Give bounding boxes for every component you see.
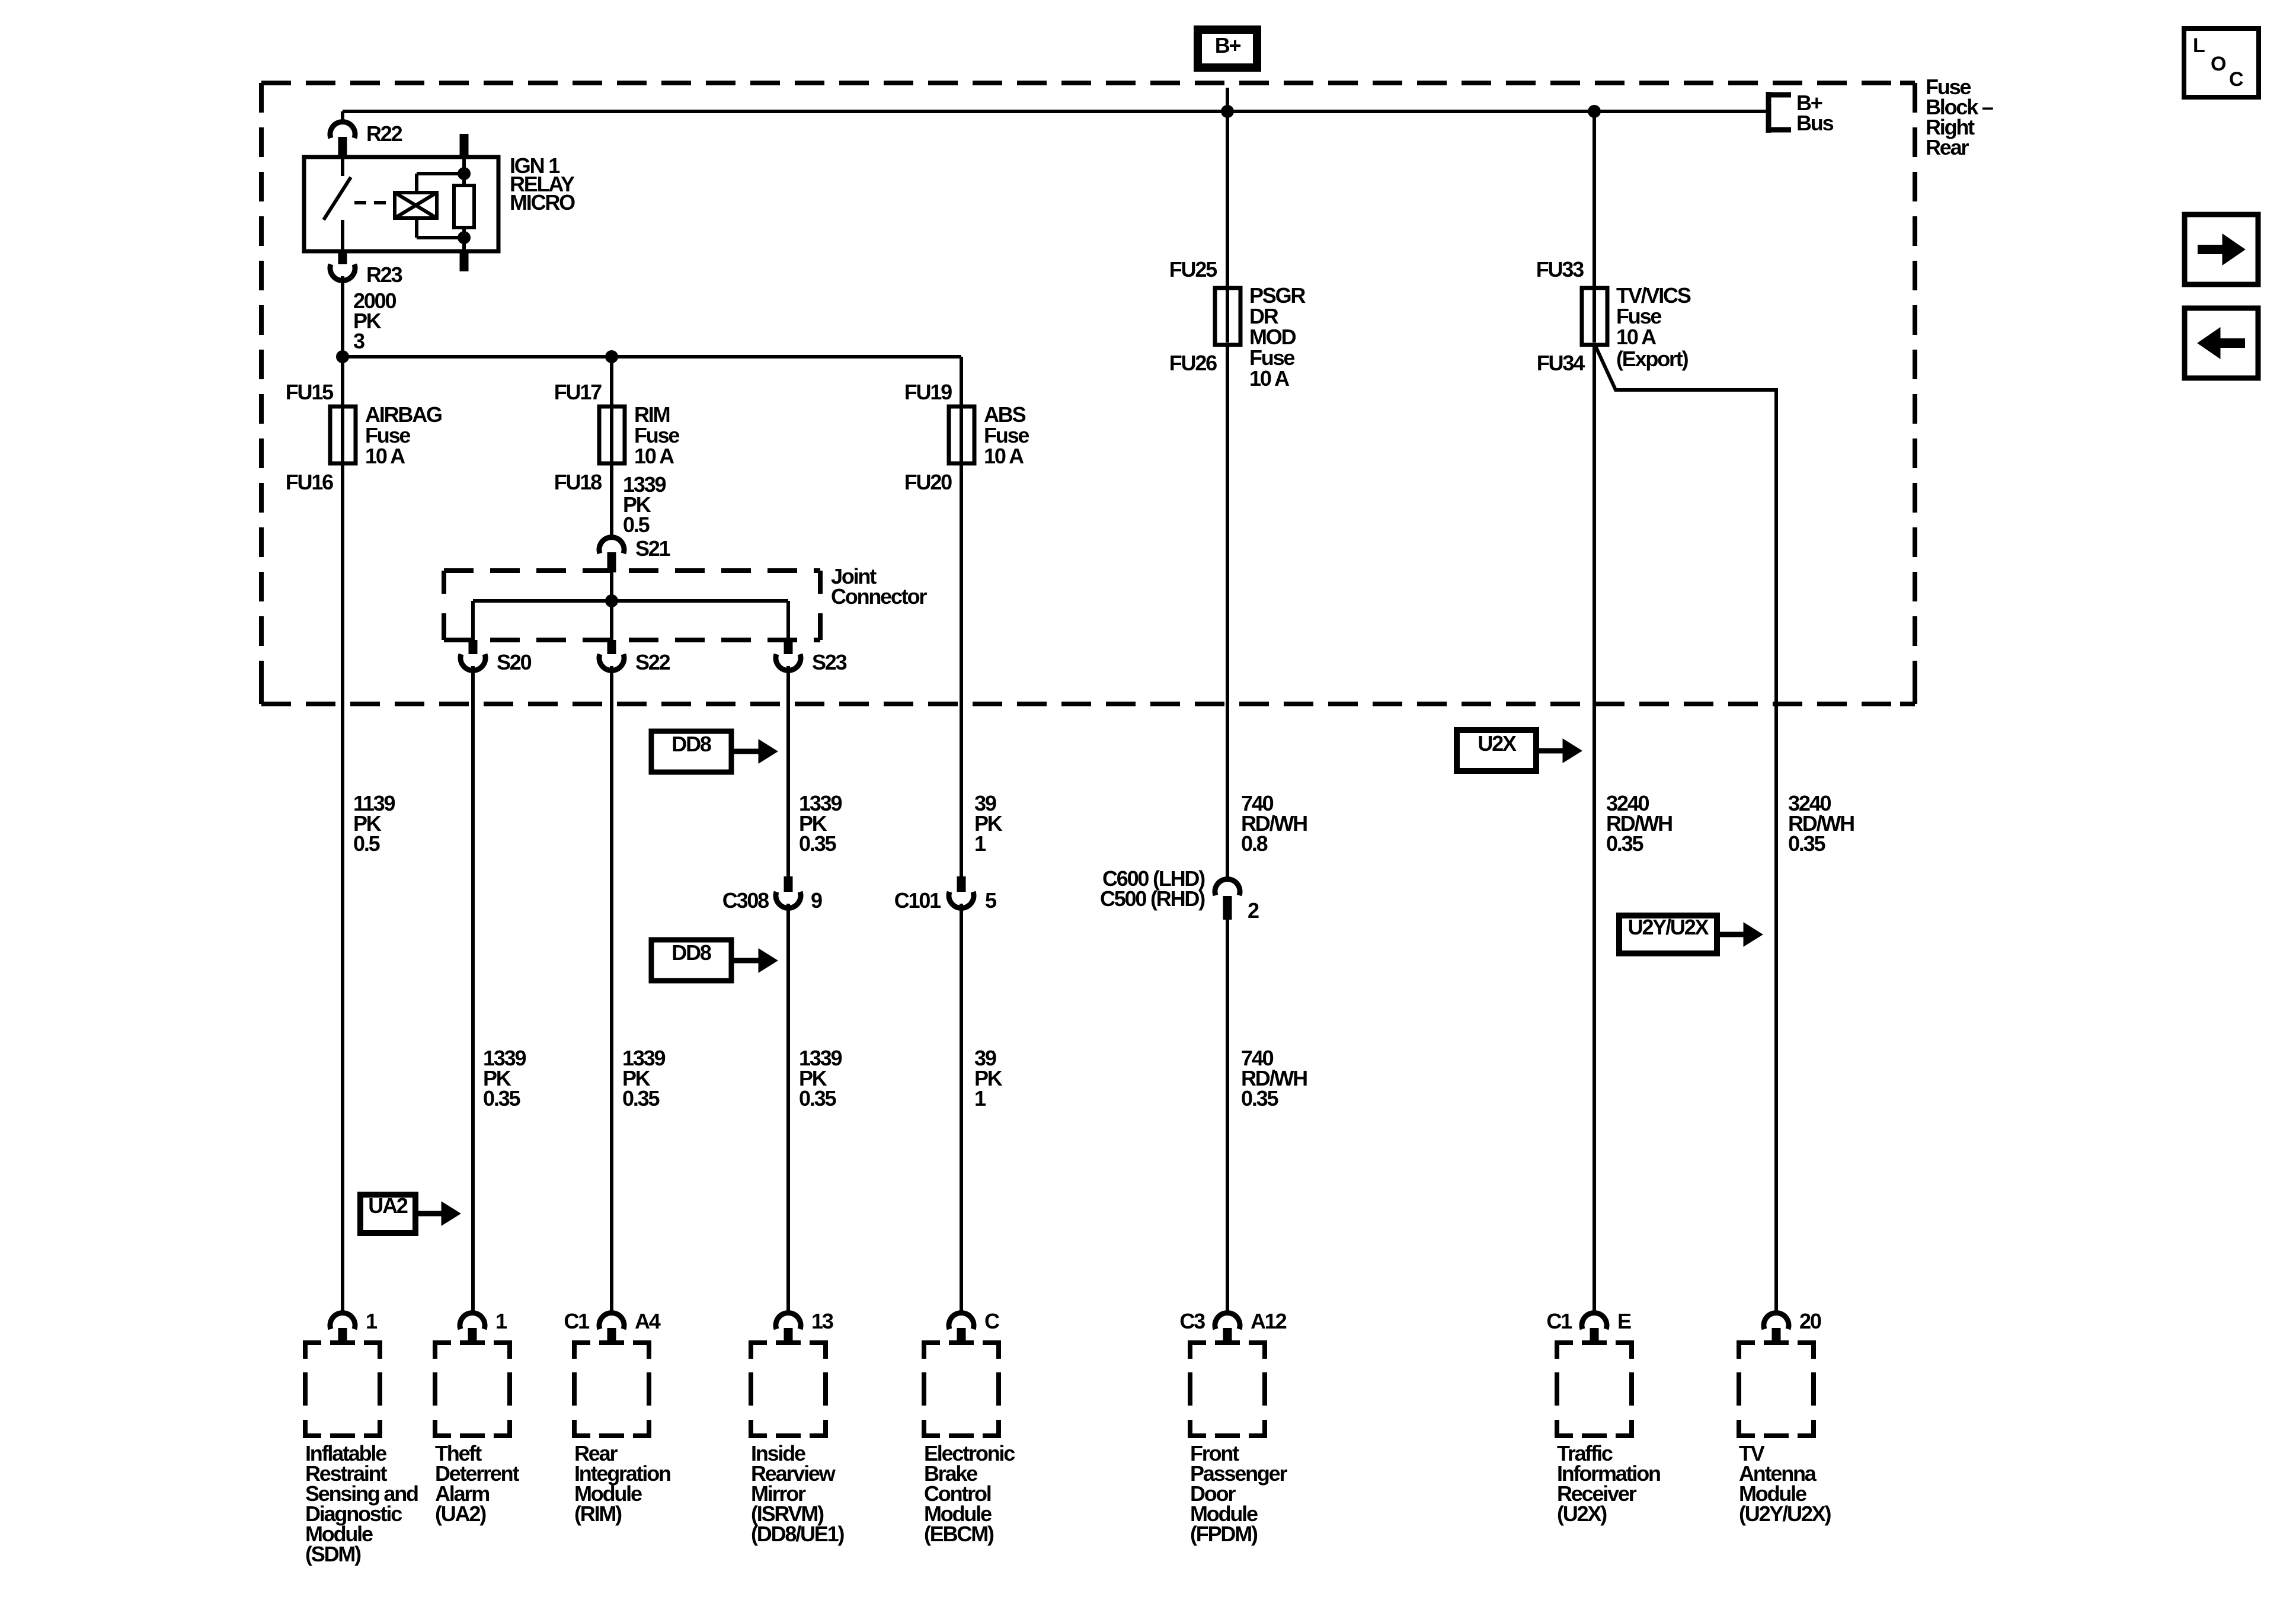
svg-text:20: 20 — [1799, 1309, 1821, 1333]
wire bus to FU33 — [1593, 111, 1596, 290]
label PSGR DR MOD Fuse 10 A — [1249, 283, 1306, 391]
fuse FU25/FU26 PSGR DR MOD — [1215, 288, 1240, 345]
svg-text:C500 (RHD): C500 (RHD) — [1100, 886, 1205, 911]
label FU17 — [554, 380, 602, 404]
fuse block - right rear dashed border (bottom) — [261, 702, 1915, 706]
wire FU34 branch to TV antenna — [1595, 346, 1776, 1312]
svg-text:C: C — [2229, 68, 2243, 91]
label R22 — [366, 121, 402, 146]
module box rear integration module (RIM) — [574, 1343, 649, 1436]
wire FU20 to C101 — [960, 463, 963, 876]
connector pin 20 at TV antenna module (U2Y/U2X) — [1764, 1313, 1789, 1345]
svg-text:13: 13 — [811, 1309, 833, 1333]
node joint connector — [605, 594, 618, 607]
wire label 1339 PK 0.35 (ISRVM lower) — [799, 1046, 842, 1110]
svg-text:FU25: FU25 — [1169, 257, 1217, 281]
relay switch — [324, 157, 351, 251]
wire joint connector bus — [473, 601, 788, 640]
fuse FU19/FU20 ABS — [949, 406, 974, 463]
svg-text:S20: S20 — [497, 650, 532, 674]
svg-text:(U2X): (U2X) — [1557, 1502, 1607, 1526]
joint connector dashed box — [444, 571, 820, 640]
svg-text:C1: C1 — [1546, 1309, 1572, 1333]
svg-text:Bus: Bus — [1796, 111, 1834, 135]
label pin 2 — [1248, 898, 1259, 923]
label C600 (LHD) C500 (RHD) — [1100, 866, 1205, 911]
wire coil top to resistor node — [417, 174, 464, 193]
label FU18 — [554, 470, 602, 494]
svg-text:0.35: 0.35 — [1241, 1086, 1278, 1110]
label Joint Connector — [831, 564, 927, 609]
svg-text:3: 3 — [353, 329, 364, 353]
svg-text:5: 5 — [985, 888, 997, 913]
svg-text:C1: C1 — [564, 1309, 590, 1333]
wire label 39 PK 1 (upper) — [974, 791, 1003, 856]
node relay top — [458, 167, 471, 180]
svg-text:O: O — [2211, 53, 2226, 75]
svg-text:10 A: 10 A — [365, 444, 405, 468]
splice S21 — [599, 537, 624, 572]
svg-text:E: E — [1617, 1309, 1631, 1333]
svg-text:Connector: Connector — [831, 584, 927, 609]
DD8 callout box 1 — [651, 731, 731, 772]
wire label 3240 RD/WH 0.35 (U2Y/U2X) — [1788, 791, 1854, 856]
label traffic information receiver (U2X) — [1557, 1441, 1660, 1526]
wire B+ to bus — [1226, 88, 1229, 111]
node bus junction at FU33 column — [1588, 105, 1601, 118]
wire C308 to ISRVM — [786, 904, 790, 1312]
svg-text:FU20: FU20 — [904, 470, 952, 494]
svg-text:S23: S23 — [812, 650, 847, 674]
label (Export) — [1616, 347, 1689, 371]
svg-text:(DD8/UE1): (DD8/UE1) — [751, 1522, 844, 1546]
svg-text:0.35: 0.35 — [622, 1086, 660, 1110]
splice S23 — [776, 640, 801, 670]
svg-text:U2X: U2X — [1478, 731, 1517, 756]
relay pin 86 stub — [460, 134, 469, 157]
node distribution at FU15 — [336, 350, 349, 363]
label pin 9 — [811, 888, 822, 913]
connector C101 pin 5 — [949, 876, 974, 908]
svg-text:FU26: FU26 — [1169, 351, 1217, 375]
svg-text:MICRO: MICRO — [510, 190, 575, 215]
label pin C — [984, 1309, 1000, 1333]
relay coil box — [395, 193, 437, 218]
fuse FU15/FU16 AIRBAG — [330, 406, 356, 463]
connector pin 13 at inside rearview mirror (ISRVM) — [776, 1313, 801, 1345]
wire label 740 RD/WH 0.8 — [1241, 791, 1307, 856]
wire S21 into joint connector — [610, 572, 613, 601]
label FU16 — [286, 470, 333, 494]
svg-text:0.35: 0.35 — [1788, 831, 1825, 856]
fuse block border corner dashes — [261, 83, 1915, 704]
svg-text:0.35: 0.35 — [799, 1086, 836, 1110]
svg-text:FU15: FU15 — [286, 380, 334, 404]
svg-text:B+: B+ — [1215, 33, 1241, 57]
svg-text:0.5: 0.5 — [353, 831, 380, 856]
wire coil bottom to resistor node — [417, 218, 464, 238]
DD8 callout arrow 2 — [731, 949, 778, 972]
U2Y/U2X callout arrow — [1717, 923, 1763, 946]
wire to FU15 — [341, 357, 344, 409]
label FU26 — [1169, 351, 1217, 375]
node bus junction at FPDM column — [1221, 105, 1234, 118]
B+ Bus bracket — [1766, 92, 1791, 133]
right arrow box — [2185, 215, 2258, 284]
svg-text:A4: A4 — [635, 1309, 661, 1333]
module box inflatable restraint sensing and diagnostic module (SDM) — [305, 1343, 380, 1436]
svg-text:(FPDM): (FPDM) — [1190, 1522, 1258, 1546]
svg-text:FU16: FU16 — [286, 470, 333, 494]
connector pin 1 at theft deterrent alarm (UA2) — [460, 1313, 485, 1345]
connector C600/C500 pin 2 — [1215, 879, 1240, 920]
wire bus to FU25 — [1226, 111, 1229, 290]
label FU25 — [1169, 257, 1217, 281]
svg-text:1: 1 — [974, 1086, 986, 1110]
label electronic brake control module (EBCM) — [924, 1441, 1015, 1546]
svg-text:L: L — [2193, 34, 2205, 57]
svg-text:FU34: FU34 — [1537, 351, 1585, 375]
wire distribution line — [343, 355, 961, 359]
svg-text:0.5: 0.5 — [623, 513, 650, 537]
svg-text:C3: C3 — [1179, 1309, 1205, 1333]
svg-text:FU17: FU17 — [554, 380, 602, 404]
label C101 — [894, 888, 941, 913]
wire label 1339 PK 0.35 (RIM) — [622, 1046, 665, 1110]
wire bus to R22 — [341, 111, 344, 122]
connector pin A4 at rear integration module (RIM) — [599, 1313, 624, 1345]
label rear integration module (RIM) — [574, 1441, 670, 1526]
wire label 1139 PK 0.5 — [353, 791, 395, 856]
svg-text:9: 9 — [811, 888, 822, 913]
label FU15 — [286, 380, 334, 404]
wire S22 to RIM — [610, 666, 613, 1312]
wire label 740 RD/WH 0.35 — [1241, 1046, 1307, 1110]
connector R23 — [330, 251, 355, 280]
svg-text:10 A: 10 A — [1616, 325, 1657, 349]
label connector C3 — [1179, 1309, 1205, 1333]
relay pin 85 stub — [460, 251, 469, 271]
label pin E — [1617, 1309, 1631, 1333]
svg-text:1: 1 — [495, 1309, 507, 1333]
label connector C1 — [564, 1309, 590, 1333]
wire B+ bus horizontal — [343, 110, 1766, 113]
svg-text:(SDM): (SDM) — [305, 1542, 361, 1566]
label B+ Bus — [1796, 91, 1834, 135]
svg-text:U2Y/U2X: U2Y/U2X — [1628, 915, 1709, 939]
label connector C1 — [1546, 1309, 1572, 1333]
wire label 39 PK 1 (lower) — [974, 1046, 1003, 1110]
wire label 1339 PK 0.5 — [623, 472, 666, 537]
svg-text:DD8: DD8 — [671, 940, 711, 965]
label front passenger door module (FPDM) — [1190, 1441, 1287, 1546]
svg-text:0.35: 0.35 — [799, 831, 836, 856]
svg-text:R22: R22 — [366, 121, 402, 146]
svg-text:R23: R23 — [366, 263, 402, 287]
label S21 — [635, 536, 671, 561]
svg-text:UA2: UA2 — [368, 1193, 408, 1218]
svg-text:1: 1 — [974, 831, 986, 856]
label pin 20 — [1799, 1309, 1821, 1333]
label pin 13 — [811, 1309, 833, 1333]
connector pin A12 at front passenger door module (FPDM) — [1215, 1313, 1240, 1345]
fuse FU17/FU18 RIM — [599, 406, 625, 463]
wire FU34 to traffic information receiver — [1593, 345, 1596, 1312]
wire FU26 to C600 — [1226, 345, 1229, 879]
label pin 1 — [495, 1309, 507, 1333]
B+ power symbol box — [1198, 30, 1257, 68]
label ABS Fuse 10 A — [984, 402, 1029, 468]
svg-text:FU18: FU18 — [554, 470, 602, 494]
module box inside rearview mirror (ISRVM) — [751, 1343, 826, 1436]
svg-text:(U2Y/U2X): (U2Y/U2X) — [1739, 1502, 1831, 1526]
svg-text:C101: C101 — [894, 888, 941, 913]
wire label 1339 PK 0.35 (theft) — [483, 1046, 526, 1110]
svg-text:10 A: 10 A — [1249, 366, 1290, 391]
svg-text:0.35: 0.35 — [1606, 831, 1643, 856]
DD8 callout box 2 — [651, 940, 731, 981]
wire FU16 to SDM — [341, 463, 344, 1312]
module box front passenger door module (FPDM) — [1190, 1343, 1265, 1436]
svg-text:DD8: DD8 — [671, 732, 711, 756]
node distribution at FU17 — [605, 350, 618, 363]
wire label 3240 RD/WH 0.35 (U2X) — [1606, 791, 1672, 856]
left arrow box — [2185, 308, 2258, 378]
connector pin C at electronic brake control module (EBCM) — [949, 1313, 974, 1345]
label FU20 — [904, 470, 952, 494]
splice S22 — [599, 640, 624, 670]
svg-text:FU33: FU33 — [1536, 257, 1584, 281]
label C308 — [722, 888, 769, 913]
svg-text:FU19: FU19 — [904, 380, 952, 404]
wire C600 to FPDM — [1226, 920, 1229, 1312]
module box theft deterrent alarm (UA2) — [435, 1343, 510, 1436]
svg-text:10 A: 10 A — [634, 444, 674, 468]
label pin A12 — [1251, 1309, 1287, 1333]
label S22 — [635, 650, 670, 674]
svg-text:S21: S21 — [635, 536, 671, 561]
wire to FU17 — [610, 357, 613, 409]
label FU19 — [904, 380, 952, 404]
relay IGN 1 box — [304, 157, 498, 251]
label FU34 — [1537, 351, 1585, 375]
wire FU18 to S21 — [610, 463, 613, 537]
label theft deterrent alarm (UA2) — [435, 1441, 519, 1526]
wire label 2000 PK 3 — [353, 289, 396, 353]
label AIRBAG Fuse 10 A — [365, 402, 442, 468]
label Fuse Block - Right Rear — [1926, 75, 1993, 159]
svg-text:2: 2 — [1248, 898, 1259, 923]
label TV antenna module (U2Y/U2X) — [1739, 1441, 1831, 1526]
fuse block - right rear dashed border (right) — [1913, 83, 1917, 704]
label pin A4 — [635, 1309, 661, 1333]
fuse FU33/FU34 TV/VICS — [1582, 288, 1607, 345]
U2Y/U2X callout box — [1619, 915, 1717, 953]
svg-text:S22: S22 — [635, 650, 670, 674]
label S23 — [812, 650, 847, 674]
label FU33 — [1536, 257, 1584, 281]
svg-text:Rear: Rear — [1926, 135, 1969, 159]
relay actuator dashed link — [354, 201, 394, 204]
label RIM Fuse 10 A — [634, 402, 679, 468]
connector pin E at traffic information receiver (U2X) — [1582, 1313, 1607, 1345]
svg-text:(RIM): (RIM) — [574, 1502, 622, 1526]
label pin 5 — [985, 888, 997, 913]
wire C101 to EBCM — [960, 904, 963, 1312]
wire S23 to C308 — [786, 666, 790, 876]
module box electronic brake control module (EBCM) — [924, 1343, 999, 1436]
connector pin 1 at inflatable restraint sensing and diagnostic module (SDM) — [330, 1313, 355, 1345]
svg-text:(Export): (Export) — [1616, 347, 1689, 371]
DD8 callout arrow 1 — [731, 740, 778, 763]
svg-text:C: C — [984, 1309, 1000, 1333]
LOC reference box — [2184, 28, 2259, 97]
svg-text:1: 1 — [366, 1309, 378, 1333]
wire S20 to theft deterrent alarm — [471, 666, 475, 1312]
label S20 — [497, 650, 532, 674]
resistor in relay — [454, 157, 474, 251]
wire distribution to FU19 — [960, 357, 963, 409]
connector C308 pin 9 — [776, 876, 801, 908]
label IGN 1 RELAY MICRO — [510, 153, 575, 215]
label inflatable restraint sensing and diagnostic module (SDM) — [305, 1441, 418, 1566]
svg-text:A12: A12 — [1251, 1309, 1287, 1333]
label inside rearview mirror (ISRVM) — [751, 1441, 844, 1546]
label R23 — [366, 263, 402, 287]
svg-text:10 A: 10 A — [984, 444, 1024, 468]
label TV/VICS Fuse 10 A — [1616, 283, 1691, 349]
wire R23 down — [341, 276, 344, 357]
fuse block - right rear dashed border (top) — [261, 81, 1915, 85]
UA2 callout box — [360, 1193, 415, 1233]
module box traffic information receiver (U2X) — [1557, 1343, 1632, 1436]
splice S20 — [461, 640, 485, 670]
fuse block - right rear dashed border (left) — [259, 83, 264, 704]
svg-text:0.8: 0.8 — [1241, 831, 1268, 856]
UA2 callout arrow — [415, 1202, 461, 1225]
node relay bottom — [458, 231, 471, 244]
svg-text:(EBCM): (EBCM) — [924, 1522, 994, 1546]
U2X callout box — [1457, 730, 1536, 771]
U2X callout arrow — [1536, 739, 1582, 763]
label pin 1 — [366, 1309, 378, 1333]
svg-text:0.35: 0.35 — [483, 1086, 520, 1110]
svg-text:C308: C308 — [722, 888, 769, 913]
connector R22 — [330, 122, 355, 157]
wire label 1339 PK 0.35 (ISRVM upper) — [799, 791, 842, 856]
module box TV antenna module (U2Y/U2X) — [1739, 1343, 1814, 1436]
svg-text:(UA2): (UA2) — [435, 1502, 486, 1526]
